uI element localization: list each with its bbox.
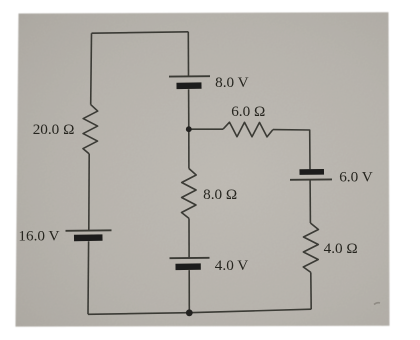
node C junction dot: [186, 126, 192, 132]
wire mid (8 ohm to 4.0 V battery): [188, 218, 190, 257]
svg-text:20.0 Ω: 20.0 Ω: [33, 121, 75, 138]
battery 16.0 V plate long: [66, 229, 112, 232]
svg-text:6.0 Ω: 6.0 Ω: [231, 103, 265, 120]
svg-text:8.0 V: 8.0 V: [215, 74, 249, 91]
battery 4.0 V plate long: [170, 257, 210, 259]
battery 16.0 V plate short thick: [74, 234, 103, 241]
wire 6 ohm row left: [189, 128, 223, 130]
battery 6.0 V plate short thick: [300, 169, 325, 175]
wire mid top (to 8.0 V battery): [187, 32, 189, 76]
wire left middle: [88, 154, 90, 230]
wire mid lower (to node D): [188, 270, 190, 313]
battery 6.0 V plate long: [290, 178, 332, 180]
node D junction dot: [186, 309, 193, 316]
svg-text:16.0 V: 16.0 V: [18, 227, 59, 244]
wire right lower: [310, 272, 312, 309]
wire 6 ohm row right: [273, 130, 310, 170]
battery 4.0 V plate short thick: [176, 263, 201, 270]
wire top: [92, 32, 189, 33]
battery 8.0 V plate short thick: [177, 82, 202, 89]
svg-text:4.0 Ω: 4.0 Ω: [324, 240, 358, 257]
svg-text:4.0 V: 4.0 V: [215, 257, 249, 274]
resistor R 8.0 ohm: [182, 169, 197, 219]
resistor R 4.0 ohm: [303, 223, 318, 272]
wire left lower: [87, 241, 90, 314]
svg-text:8.0 Ω: 8.0 Ω: [203, 186, 237, 203]
battery 8.0 V plate long: [169, 75, 210, 77]
resistor R 20.0 ohm: [83, 105, 98, 154]
wire right (battery to 4 ohm): [309, 180, 311, 223]
wire mid (node C to 8 ohm): [188, 129, 190, 168]
stray pen mark: [374, 303, 380, 305]
wire mid (battery to node C): [188, 89, 190, 129]
svg-text:6.0 V: 6.0 V: [339, 169, 373, 186]
resistor R 6.0 ohm: [223, 122, 273, 137]
wire bottom: [88, 309, 311, 314]
wire left upper: [90, 33, 93, 104]
